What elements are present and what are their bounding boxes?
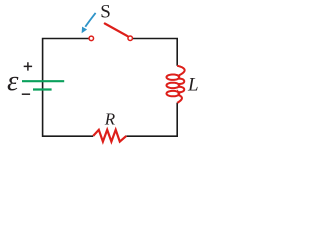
battery EMF source: long plate: [22, 80, 64, 82]
switch left contact: [89, 36, 94, 41]
resistor zigzag: [93, 130, 126, 142]
svg-text:L: L: [187, 75, 199, 96]
wire top right segment from switch right contact to inductor top: [133, 39, 177, 66]
wire bottom right segment from inductor bottom to resistor right: [126, 103, 177, 136]
minus label: [22, 93, 30, 95]
svg-text:ε: ε: [7, 65, 19, 97]
wire left+top segment to switch left contact: [43, 39, 94, 137]
switch right contact: [128, 36, 133, 41]
battery short plate: [33, 88, 52, 90]
inductor coil: [167, 66, 185, 103]
switch blade: [105, 24, 128, 37]
svg-text:S: S: [100, 2, 111, 23]
svg-text:R: R: [104, 110, 116, 129]
blue arrowhead: [82, 27, 88, 34]
blue close-switch arrow: [85, 13, 95, 27]
plus label: [24, 62, 32, 70]
